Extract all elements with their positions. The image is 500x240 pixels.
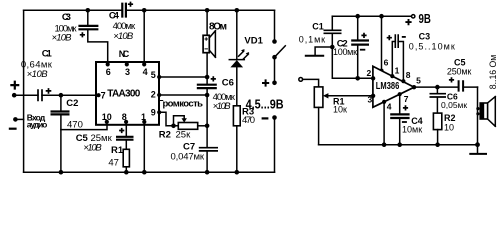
svg-text:6: 6 <box>384 58 389 68</box>
pin 10 <box>102 112 112 124</box>
svg-text:×10В: ×10В <box>52 33 73 44</box>
potentiometer R2 volume <box>159 116 198 141</box>
resistor R1 <box>108 145 129 172</box>
pin 7 <box>96 91 105 101</box>
svg-text:C6: C6 <box>222 78 234 89</box>
svg-text:NC: NC <box>119 49 130 59</box>
wire top rail right segment <box>126 9 275 11</box>
node C1 ground junction <box>330 45 335 50</box>
svg-text:0,1мк: 0,1мк <box>299 34 325 44</box>
svg-text:8: 8 <box>122 112 127 122</box>
node top rail VD1 junction <box>235 8 240 13</box>
capacitor C5 <box>76 125 134 154</box>
svg-text:9В: 9В <box>419 11 431 26</box>
op-amp U2 LM386 <box>373 66 416 107</box>
capacitor C1 <box>21 48 53 101</box>
node rail pin6 junction <box>379 14 384 19</box>
wire pin 1 ground <box>143 125 145 172</box>
wire minus terminal to rail <box>15 118 23 120</box>
wire C1 to pin 7 <box>42 94 96 96</box>
wire top rail left segment <box>24 9 123 11</box>
wire pin 10 to C2 line <box>61 125 107 130</box>
svg-text:6: 6 <box>106 67 111 77</box>
node top rail C3 junction <box>86 8 91 13</box>
capacitor C3 <box>52 10 99 43</box>
svg-text:47: 47 <box>108 158 119 169</box>
wire top rail right circuit <box>332 15 411 17</box>
svg-text:100мк: 100мк <box>333 47 357 57</box>
node R2 bus junction <box>435 142 440 147</box>
wire pot to speaker line <box>198 125 207 127</box>
svg-text:5: 5 <box>416 76 421 86</box>
pin 3 <box>125 62 130 77</box>
svg-text:0,05мк: 0,05мк <box>441 100 467 110</box>
svg-text:0,5..10мк: 0,5..10мк <box>409 42 455 52</box>
diode VD1 LED <box>229 10 263 67</box>
svg-text:×10В: ×10В <box>113 31 134 42</box>
pin 4 <box>142 62 148 77</box>
node wiper junction <box>171 124 176 129</box>
ground at C1 right <box>305 47 333 56</box>
capacitor C4 <box>109 2 136 42</box>
svg-text:470: 470 <box>67 119 83 130</box>
node C7 rail junction <box>205 170 210 175</box>
svg-text:Громкость: Громкость <box>158 99 203 110</box>
capacitor C4 right <box>390 92 423 145</box>
svg-text:2: 2 <box>151 90 156 100</box>
capacitor C7 <box>171 141 219 172</box>
speaker BA2 right <box>476 87 495 145</box>
svg-text:470: 470 <box>242 115 255 126</box>
pin 1 <box>141 112 146 124</box>
resistor R3 <box>233 106 255 172</box>
pin 2 <box>151 90 161 100</box>
svg-text:VD1: VD1 <box>244 35 263 46</box>
node pin2 junction right <box>371 76 375 80</box>
wire pin 5 to speaker line <box>159 76 207 78</box>
pin 8 <box>122 112 129 124</box>
capacitor C3 right <box>387 31 455 81</box>
wire VD1 to R3 <box>236 67 238 105</box>
svg-text:9: 9 <box>151 107 156 117</box>
svg-text:8Ом: 8Ом <box>209 21 227 32</box>
svg-text:8..16 Ом: 8..16 Ом <box>488 55 498 90</box>
node pin5 junction <box>205 75 210 80</box>
wire input to pot right <box>303 79 319 87</box>
svg-text:2: 2 <box>367 68 372 78</box>
svg-text:0,047мк: 0,047мк <box>171 152 205 163</box>
wire pin 5 output <box>414 86 459 88</box>
wire C5 to speaker <box>463 86 477 88</box>
svg-text:C1: C1 <box>42 48 53 59</box>
svg-text:10мк: 10мк <box>402 124 422 134</box>
svg-text:C3: C3 <box>62 12 71 23</box>
capacitor C2 right <box>333 16 369 78</box>
svg-text:C2: C2 <box>66 98 78 109</box>
speaker BA1 8 Ohm <box>203 10 227 77</box>
wire pot bottom to bus <box>318 107 320 144</box>
svg-text:250мк: 250мк <box>447 67 471 77</box>
wire C6 down to C7 <box>206 95 208 147</box>
switch SA1 <box>272 10 285 59</box>
svg-text:C1: C1 <box>312 22 324 32</box>
svg-text:5: 5 <box>151 70 156 80</box>
node 9V terminal <box>405 11 431 26</box>
node R3 rail junction <box>235 170 240 175</box>
svg-text:C4: C4 <box>109 11 120 22</box>
wire C3 to pin 6 <box>88 30 108 62</box>
capacitor C1 right <box>299 16 373 78</box>
wire left rail <box>23 10 25 172</box>
wire input to C1 <box>14 94 38 96</box>
wire pin 6 <box>379 16 388 72</box>
node pot right junction <box>205 124 210 129</box>
wire pin 2 to C6 line <box>159 94 207 96</box>
node pin 3 junction <box>371 94 375 98</box>
pin 9 <box>151 107 161 117</box>
wire pin 4 to top rail <box>143 10 145 62</box>
svg-text:4,5...9В: 4,5...9В <box>246 97 284 112</box>
svg-text:×10В: ×10В <box>213 101 232 112</box>
node pin2 junction <box>205 93 210 98</box>
svg-text:LM386: LM386 <box>376 80 400 92</box>
node input minus terminal <box>9 117 18 129</box>
wire pin 4 down <box>383 102 385 145</box>
capacitor C2 <box>51 95 83 172</box>
node C2 junction <box>59 93 64 98</box>
svg-text:8: 8 <box>406 70 411 80</box>
svg-text:аудио: аудио <box>27 120 48 130</box>
potentiometer R1 right <box>314 87 347 115</box>
svg-text:1: 1 <box>395 66 400 76</box>
node C2 pin2 junction <box>355 76 360 81</box>
capacitor C6 <box>197 76 236 112</box>
node input plus terminal <box>10 81 19 98</box>
wire wiper to pin 3 <box>328 95 373 97</box>
node pin4 bus junction <box>382 142 387 147</box>
pin 5 <box>151 70 161 80</box>
resistor R2 right <box>433 113 455 145</box>
svg-text:1: 1 <box>141 112 146 122</box>
node top rail speaker junction <box>205 8 210 13</box>
node input terminal right <box>299 78 303 82</box>
capacitor C5 right <box>447 58 471 92</box>
node rail C2 junction <box>355 14 360 19</box>
pin 6 <box>106 62 111 77</box>
wire ground bus right <box>319 144 478 146</box>
svg-text:25к: 25к <box>176 130 192 141</box>
svg-text:×10В: ×10В <box>27 69 49 80</box>
node C2 bottom junction <box>59 170 64 175</box>
capacitor C6 right <box>430 87 468 113</box>
svg-text:7: 7 <box>101 91 106 101</box>
svg-text:7: 7 <box>404 94 409 104</box>
node top rail pin4 junction <box>142 8 147 13</box>
svg-text:C3: C3 <box>419 31 431 41</box>
node R1 rail junction <box>124 170 129 175</box>
svg-text:×10В: ×10В <box>83 142 102 153</box>
op-amp U1 TAA300 box <box>96 49 159 125</box>
svg-text:4: 4 <box>143 67 148 77</box>
svg-text:3: 3 <box>125 67 130 77</box>
svg-text:10к: 10к <box>333 105 347 115</box>
svg-text:TAA300: TAA300 <box>107 88 140 99</box>
wire pin 9 to volume pot <box>159 112 178 126</box>
svg-text:10: 10 <box>102 112 112 122</box>
wire bottom rail <box>24 171 275 173</box>
svg-text:R1: R1 <box>111 145 124 156</box>
battery GB1 <box>246 57 284 172</box>
node label input <box>27 113 48 130</box>
svg-text:10: 10 <box>444 122 454 132</box>
svg-text:4: 4 <box>387 101 392 111</box>
ground at bus end right <box>469 142 487 154</box>
node output junction <box>435 85 440 90</box>
node C4 bus junction <box>397 142 402 147</box>
node pin1 rail junction <box>142 170 147 175</box>
svg-text:R2: R2 <box>159 130 171 141</box>
